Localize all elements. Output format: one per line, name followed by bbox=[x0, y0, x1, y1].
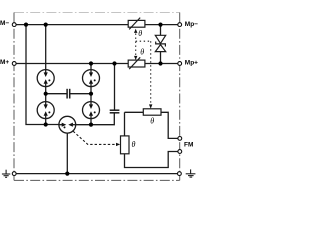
thermistor R2 (FM loop left, vertical) bbox=[121, 136, 130, 154]
control dashed arrow G5 to R2 bbox=[73, 131, 116, 144]
wire capacitor C1 right lead bbox=[70, 93, 91, 95]
terminal M+ bbox=[12, 62, 16, 66]
wire G5 right to capacitor C2 bottom bbox=[76, 113, 115, 125]
surge arrester G5 (horizontal) bbox=[59, 116, 76, 133]
terminal ground left bbox=[12, 172, 16, 176]
svg-text:θ: θ bbox=[140, 48, 144, 57]
wire M- rail right bbox=[145, 24, 178, 26]
junction G2-G4 / C1 right bbox=[89, 92, 93, 96]
wire FM loop top left bbox=[125, 111, 144, 113]
terminal Mp- bbox=[178, 23, 182, 27]
terminal ground right bbox=[178, 172, 182, 176]
TVS diode (bidirectional suppressor) bbox=[155, 35, 165, 51]
svg-text:θ: θ bbox=[150, 116, 154, 125]
wire M- rail left bbox=[16, 24, 128, 26]
wire G2 bottom to G4 top bbox=[90, 87, 92, 102]
wire M+ rail left bbox=[16, 63, 128, 65]
junction G1-G3 / C1 left bbox=[44, 92, 48, 96]
thermal link dotted box1-box2 bbox=[135, 34, 137, 56]
svg-text:M−: M− bbox=[0, 20, 9, 27]
capacitor C1 plates bbox=[67, 89, 70, 99]
thermal link dotted vertical to R1 bbox=[150, 41, 152, 104]
thermal link arrow into box2 bbox=[134, 56, 137, 60]
thermal link dotted horizontal bbox=[136, 40, 151, 42]
wire M+ to G2 top bbox=[90, 64, 92, 70]
PTC thermistor box1 bbox=[128, 18, 145, 30]
wire G1 bottom to G3 top bbox=[45, 87, 47, 102]
wire FM lower terminal to loop bottom bbox=[125, 152, 178, 168]
svg-text:Mp+: Mp+ bbox=[185, 59, 198, 66]
svg-text:FM: FM bbox=[184, 142, 193, 149]
junction M+ / C2 bbox=[112, 61, 116, 65]
surge arrester G3 bbox=[37, 102, 54, 119]
svg-text:θ: θ bbox=[132, 140, 136, 149]
terminal Mp+ bbox=[178, 62, 182, 66]
terminal FM upper bbox=[178, 137, 182, 141]
wire M+ rail right bbox=[145, 63, 178, 65]
surge arrester G2 bbox=[83, 70, 100, 87]
wire thermistor R2 top to loop corner bbox=[124, 112, 126, 136]
junction G4 bottom / node row bbox=[89, 123, 93, 127]
PTC thermistor box2 bbox=[128, 57, 145, 69]
wire G4 bottom to node row bbox=[90, 119, 92, 125]
junction M- / wire A bbox=[24, 23, 28, 27]
junction M- / wire B bbox=[44, 23, 48, 27]
wire G5 bottom to ground rail bbox=[66, 133, 68, 174]
wire capacitor C2 top lead bbox=[114, 64, 116, 111]
svg-text:Mp−: Mp− bbox=[185, 21, 198, 28]
thermal link arrow into box1 bbox=[134, 29, 137, 33]
wire from M- down to G1 top bbox=[45, 25, 47, 70]
wire capacitor C1 left lead bbox=[46, 93, 67, 95]
junction G3 bottom / node row bbox=[44, 122, 48, 126]
wire ground rail bbox=[16, 173, 177, 175]
svg-text:M+: M+ bbox=[0, 59, 9, 66]
ground symbol right bbox=[186, 169, 196, 177]
junction M+ / TVS bottom bbox=[158, 61, 162, 65]
wire from M- down to G5 left bbox=[26, 25, 59, 125]
junction M+ / G2 bbox=[89, 61, 93, 65]
wire resistor R1 to FM upper terminal bbox=[161, 112, 178, 138]
terminal FM lower bbox=[178, 150, 182, 154]
resistor R1 (FM loop top) bbox=[143, 109, 161, 115]
junction G5 / ground rail bbox=[65, 172, 69, 176]
thermal link arrow into R1 bbox=[149, 104, 152, 108]
svg-text:θ: θ bbox=[138, 29, 142, 38]
surge arrester G4 bbox=[83, 102, 100, 119]
capacitor C2 plates bbox=[110, 110, 120, 113]
terminal M- bbox=[12, 23, 16, 27]
wire G3 bottom to node row bbox=[45, 119, 47, 125]
surge arrester G1 bbox=[37, 70, 54, 87]
ground symbol left bbox=[2, 170, 10, 178]
wire TVS bottom lead bbox=[160, 51, 162, 63]
junction M- / TVS top bbox=[158, 23, 162, 27]
wire TVS top lead bbox=[160, 25, 162, 36]
